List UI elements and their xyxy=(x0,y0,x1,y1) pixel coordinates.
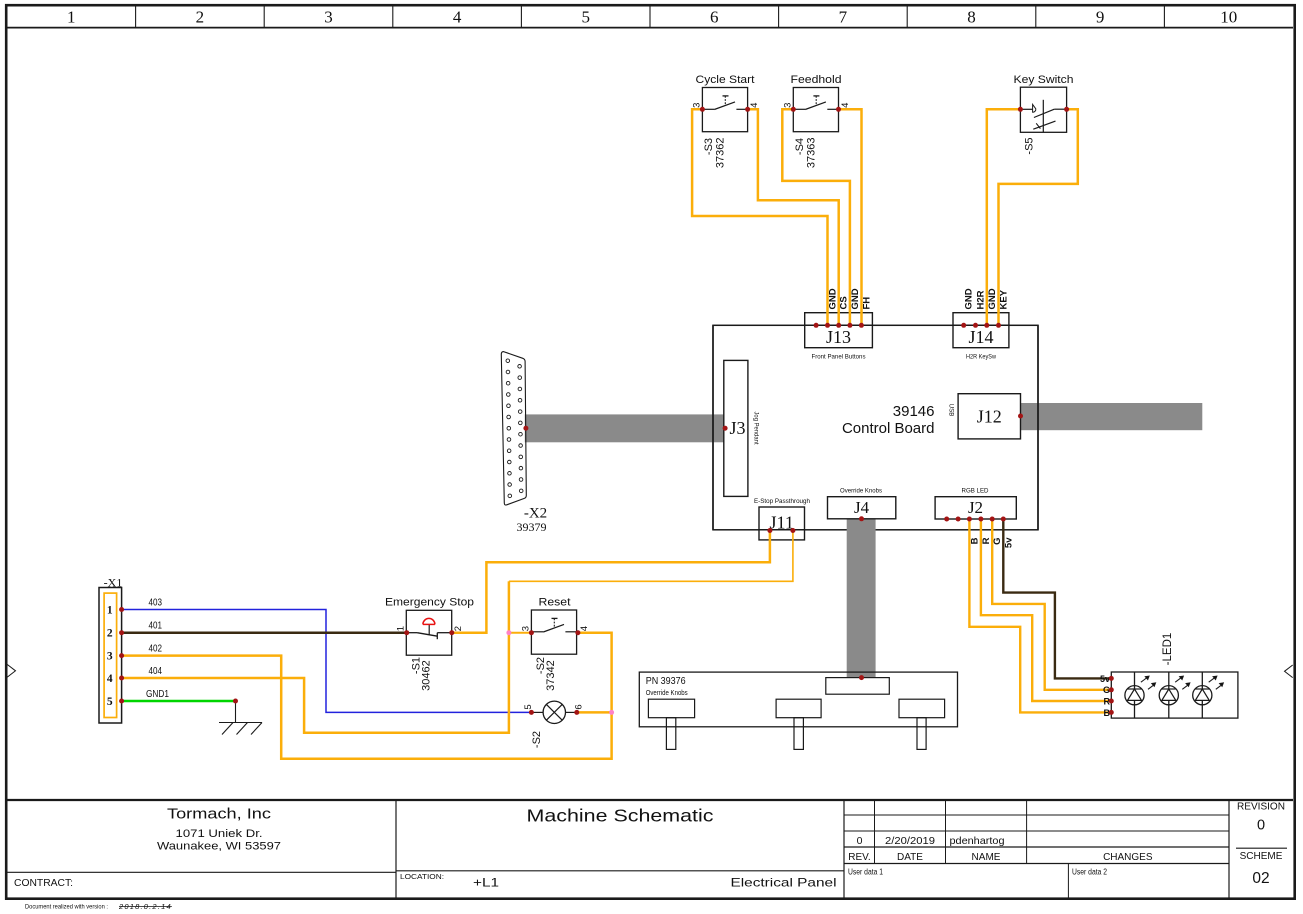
svg-text:J12: J12 xyxy=(977,407,1002,427)
connector J4 xyxy=(828,497,896,519)
svg-text:1: 1 xyxy=(107,605,113,617)
svg-text:Front Panel Buttons: Front Panel Buttons xyxy=(812,354,867,361)
knob cable socket xyxy=(826,678,890,695)
svg-text:REV.: REV. xyxy=(848,852,870,863)
svg-text:3: 3 xyxy=(782,103,793,108)
svg-text:+L1: +L1 xyxy=(473,876,499,890)
svg-text:6: 6 xyxy=(574,704,585,709)
push button -S3 Cycle Start xyxy=(702,88,747,132)
svg-text:4: 4 xyxy=(840,103,851,108)
wire 404 X1.4 to S2 junction xyxy=(122,633,509,733)
svg-text:37342: 37342 xyxy=(545,660,557,691)
svg-text:Control Board: Control Board xyxy=(842,420,935,437)
svg-text:E-Stop Passthrough: E-Stop Passthrough xyxy=(754,498,810,505)
wire junction drop to S2 pin3 xyxy=(508,581,511,632)
svg-text:Emergency Stop: Emergency Stop xyxy=(385,597,474,609)
svg-text:0: 0 xyxy=(1257,818,1265,834)
svg-text:4: 4 xyxy=(749,103,760,108)
connector J3 xyxy=(724,360,748,496)
connector -X2 DB25 xyxy=(501,352,526,505)
board top edge through J13 J14 xyxy=(805,324,873,326)
svg-text:H2R KeySw: H2R KeySw xyxy=(966,354,996,361)
wire GND1 X1.5 to ground xyxy=(122,700,236,703)
knob 2 xyxy=(776,699,821,718)
svg-text:USB: USB xyxy=(948,404,955,417)
svg-text:pdenhartog: pdenhartog xyxy=(950,835,1005,847)
connector J14 xyxy=(953,313,1009,348)
svg-text:-S2: -S2 xyxy=(531,731,543,748)
board bottom edge through J11 xyxy=(759,529,805,531)
svg-text:5: 5 xyxy=(107,696,113,708)
connector J13 xyxy=(805,313,873,348)
svg-text:GND: GND xyxy=(850,288,861,309)
wire S5 right KEY to J14 xyxy=(999,109,1078,325)
svg-text:G: G xyxy=(992,538,1003,545)
svg-text:REVISION: REVISION xyxy=(1237,802,1285,813)
svg-text:8: 8 xyxy=(967,8,976,27)
wire J2 G to LED1 xyxy=(992,519,1111,690)
svg-text:37362: 37362 xyxy=(715,138,727,169)
wire S1 pin2 to J11 left xyxy=(452,531,770,633)
wire S2 pin4 to lamp junction xyxy=(578,633,612,713)
svg-text:2: 2 xyxy=(196,8,205,27)
reset button -S2 xyxy=(531,610,576,654)
svg-text:Machine Schematic: Machine Schematic xyxy=(527,806,714,826)
svg-text:-S4: -S4 xyxy=(794,138,806,155)
ground symbol xyxy=(235,701,237,723)
svg-text:R: R xyxy=(981,537,992,544)
svg-text:7: 7 xyxy=(839,8,848,27)
svg-text:J14: J14 xyxy=(968,327,993,347)
svg-text:9: 9 xyxy=(1096,8,1105,27)
connector J12 xyxy=(958,394,1020,439)
svg-text:DATE: DATE xyxy=(897,852,923,863)
svg-text:CHANGES: CHANGES xyxy=(1103,852,1153,863)
wire S4 pin4 FH to J13 xyxy=(839,109,862,325)
svg-text:3: 3 xyxy=(107,651,113,663)
control board 39146 outline xyxy=(713,325,1038,530)
column ruler strip xyxy=(7,27,1293,29)
svg-text:SCHEME: SCHEME xyxy=(1240,851,1283,862)
wire S4 pin3 to J13 GND xyxy=(782,109,850,325)
svg-text:Feedhold: Feedhold xyxy=(791,74,842,86)
svg-text:GND: GND xyxy=(987,288,998,309)
wire 403 blue X1.1 to lamp pin5 xyxy=(122,610,532,713)
override knobs module PN 39376 xyxy=(639,672,957,727)
wire S3 pin4 CS to J13 xyxy=(748,109,839,325)
svg-text:02: 02 xyxy=(1252,870,1269,887)
svg-text:J13: J13 xyxy=(826,327,851,347)
svg-text:5v: 5v xyxy=(1100,674,1110,684)
svg-text:Waunakee, WI 53597: Waunakee, WI 53597 xyxy=(157,841,281,853)
svg-text:6: 6 xyxy=(710,8,719,27)
svg-text:404: 404 xyxy=(149,666,163,677)
svg-text:10: 10 xyxy=(1220,8,1237,27)
left fold mark xyxy=(7,665,15,678)
right fold mark xyxy=(1285,665,1293,678)
wire S5 left to J14 GND xyxy=(987,109,1021,325)
svg-text:Electrical Panel: Electrical Panel xyxy=(731,876,837,890)
board left edge over cable xyxy=(712,325,714,530)
svg-text:Override Knobs: Override Knobs xyxy=(840,488,883,495)
svg-text:39379: 39379 xyxy=(517,520,547,534)
svg-text:4: 4 xyxy=(453,8,462,27)
wire lamp pin6 to junction xyxy=(577,711,612,714)
svg-text:KEY: KEY xyxy=(999,289,1010,309)
svg-text:39146: 39146 xyxy=(893,403,935,420)
svg-text:3: 3 xyxy=(520,626,531,631)
svg-text:5: 5 xyxy=(581,8,590,27)
emergency stop switch -S1 xyxy=(406,610,451,655)
wire J11 right to reset junction xyxy=(509,531,793,582)
svg-text:B: B xyxy=(969,537,980,544)
svg-text:5: 5 xyxy=(523,704,534,709)
wire J2 5v to LED1 xyxy=(1003,519,1111,678)
svg-text:User data 1: User data 1 xyxy=(848,868,883,877)
ribbon cable J4 to override knobs xyxy=(847,519,876,679)
svg-text:401: 401 xyxy=(149,621,163,632)
svg-text:5v: 5v xyxy=(1003,537,1014,548)
svg-text:4: 4 xyxy=(107,673,113,685)
connector J11 xyxy=(759,507,805,540)
wire 401 X1.2 to S1 pin1 xyxy=(122,631,407,634)
svg-text:-X1: -X1 xyxy=(104,576,123,590)
svg-text:Tormach, Inc: Tormach, Inc xyxy=(167,806,272,823)
knob 1 xyxy=(648,699,694,718)
svg-text:402: 402 xyxy=(149,644,163,655)
svg-text:-LED1: -LED1 xyxy=(1162,633,1174,666)
svg-text:2/20/2019: 2/20/2019 xyxy=(885,835,935,847)
svg-text:J3: J3 xyxy=(729,418,745,438)
svg-text:Cycle Start: Cycle Start xyxy=(696,74,755,86)
svg-text:1: 1 xyxy=(396,626,407,631)
svg-text:4: 4 xyxy=(579,626,590,631)
svg-text:2018.0.2.14: 2018.0.2.14 xyxy=(118,902,172,911)
svg-text:CONTRACT:: CONTRACT: xyxy=(14,878,73,889)
lamp -S2 indicator xyxy=(543,701,565,723)
svg-text:1071 Uniek Dr.: 1071 Uniek Dr. xyxy=(176,828,263,840)
wire S3 pin3 to J13 GND xyxy=(692,109,827,325)
svg-text:-S5: -S5 xyxy=(1023,137,1035,154)
svg-text:403: 403 xyxy=(149,598,163,609)
svg-text:H2R: H2R xyxy=(976,290,987,309)
svg-text:37363: 37363 xyxy=(806,138,818,169)
title block xyxy=(7,799,1293,801)
wire J2 R to LED1 xyxy=(981,519,1111,701)
svg-text:J4: J4 xyxy=(854,498,870,517)
ribbon cable X2 to J3 xyxy=(525,414,725,442)
svg-text:3: 3 xyxy=(691,103,702,108)
svg-text:0: 0 xyxy=(857,835,863,847)
svg-text:GND1: GND1 xyxy=(146,689,169,700)
wire J2 B to LED1 xyxy=(969,519,1111,712)
svg-text:PN 39376: PN 39376 xyxy=(646,675,686,687)
svg-text:Key Switch: Key Switch xyxy=(1014,74,1074,86)
LED module -LED1 xyxy=(1111,672,1238,718)
knob 3 xyxy=(899,699,945,718)
svg-text:J2: J2 xyxy=(968,498,983,517)
svg-text:Document realized with version: Document realized with version : xyxy=(25,904,108,911)
terminal strip -X1 xyxy=(99,588,122,724)
svg-text:3: 3 xyxy=(324,8,333,27)
key switch -S5 xyxy=(1020,87,1066,132)
svg-text:Override Knobs: Override Knobs xyxy=(646,688,688,697)
svg-text:-S3: -S3 xyxy=(703,138,715,155)
svg-text:2: 2 xyxy=(453,626,464,631)
svg-text:Reset: Reset xyxy=(539,597,571,609)
svg-text:2: 2 xyxy=(107,628,113,640)
svg-text:GND: GND xyxy=(964,288,975,309)
push button -S4 Feedhold xyxy=(793,88,838,132)
wire 402 X1.3 to lamp junction xyxy=(122,656,612,759)
junction and pin nodes layer xyxy=(723,426,728,431)
svg-text:CS: CS xyxy=(839,296,850,309)
svg-text:NAME: NAME xyxy=(972,852,1001,863)
svg-text:LOCATION:: LOCATION: xyxy=(400,872,444,881)
svg-text:1: 1 xyxy=(67,8,76,27)
svg-text:RGB LED: RGB LED xyxy=(962,488,989,495)
svg-text:User data 2: User data 2 xyxy=(1072,868,1107,877)
board right edge over cable xyxy=(1037,325,1039,530)
ribbon cable J12 USB to page edge xyxy=(1021,403,1203,430)
svg-text:FH: FH xyxy=(861,297,872,310)
svg-text:30462: 30462 xyxy=(420,660,432,691)
svg-text:GND: GND xyxy=(828,288,839,309)
connector J2 xyxy=(935,497,1016,519)
svg-text:Jog Pendant: Jog Pendant xyxy=(753,412,760,445)
